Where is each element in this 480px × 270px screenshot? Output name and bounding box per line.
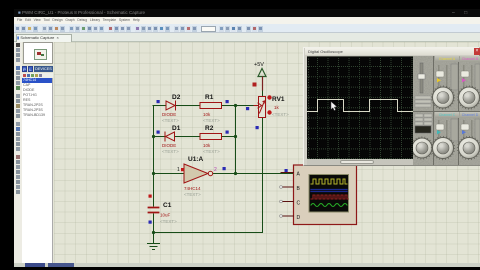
junction node input at inverter <box>152 172 155 175</box>
Channel C header <box>435 112 459 118</box>
pin state square C1 top <box>149 195 152 198</box>
svg-text:DIODE: DIODE <box>162 112 176 117</box>
oscilloscope mini screen <box>309 175 349 213</box>
mini trace A yellow <box>311 179 347 184</box>
knobs and sliders <box>413 56 480 165</box>
inverter output bubble <box>208 171 212 175</box>
scope screen <box>307 56 413 159</box>
mini trace C red <box>311 195 348 199</box>
svg-text:<TEXT>: <TEXT> <box>160 219 177 224</box>
knob channel C <box>432 137 455 160</box>
wire right bus vertical <box>235 106 237 174</box>
scope control panel <box>413 56 480 165</box>
pin state square R1 right <box>226 100 229 103</box>
svg-text:<TEXT>: <TEXT> <box>272 112 289 117</box>
trigger LCD <box>415 126 431 133</box>
svg-text:10uF: 10uF <box>160 213 171 218</box>
oscilloscope component body <box>294 165 357 225</box>
left icon strip <box>14 42 22 263</box>
potentiometer RV1 body <box>259 97 266 118</box>
svg-text:R1: R1 <box>205 94 214 101</box>
wire RV1 bottom leg <box>153 118 263 233</box>
channel D sliders <box>461 119 480 141</box>
capacitor C1 <box>149 208 159 213</box>
power +5V symbol <box>258 69 266 77</box>
pin state square RV1 wiper wire <box>246 107 249 110</box>
mini icon row <box>22 73 53 78</box>
window buttons <box>452 11 478 16</box>
Channel A header <box>435 56 459 62</box>
Channel B header <box>460 56 480 62</box>
pin state square RV1 bottom <box>256 126 259 129</box>
junction node R2 <box>234 135 237 138</box>
Channel D header <box>460 112 480 118</box>
menu bar <box>14 17 480 24</box>
channel A sliders <box>436 64 458 90</box>
wire left bus lower <box>153 214 155 243</box>
scope close button <box>474 48 480 55</box>
svg-text:C: C <box>297 201 301 207</box>
svg-text:1: 1 <box>177 167 180 173</box>
knob channel A <box>432 86 455 109</box>
scope trace <box>307 56 413 159</box>
knob horizontal <box>411 137 433 159</box>
tab bar <box>14 33 480 42</box>
panel column dividers <box>433 56 434 165</box>
oscilloscope pin terminals <box>280 186 283 189</box>
device list <box>22 78 53 263</box>
svg-text:74HC14: 74HC14 <box>184 186 201 191</box>
wire D2 row <box>153 105 200 107</box>
panel noise <box>413 56 480 165</box>
RV1 wiper arrow <box>254 103 262 108</box>
junction node R1/RV1 <box>234 104 237 107</box>
scope bottom strip <box>307 159 413 165</box>
pin state square U1 input <box>181 168 184 171</box>
svg-text:+5V: +5V <box>254 62 264 68</box>
svg-text:1k: 1k <box>274 105 280 110</box>
op-amp U1:A inverter <box>184 164 208 183</box>
col0 slider <box>415 63 431 107</box>
channel C sliders <box>436 119 458 141</box>
pin state square C1 bottom <box>149 221 152 224</box>
diode D2 <box>166 101 176 110</box>
title bar <box>14 9 480 17</box>
scope window title bar <box>305 48 480 55</box>
wire D1 row <box>153 136 200 138</box>
svg-text:D: D <box>297 215 301 221</box>
mouse cursor <box>331 102 337 111</box>
mini trace B blue <box>311 190 347 192</box>
pin state square RV1 top wire <box>253 83 257 87</box>
svg-text:<TEXT>: <TEXT> <box>184 192 201 197</box>
schematic canvas <box>54 42 480 263</box>
resistor R2 <box>200 134 222 140</box>
svg-text:<TEXT>: <TEXT> <box>203 149 220 154</box>
pin state square R2 right <box>226 131 229 134</box>
pin state square scope pin A <box>285 169 288 172</box>
junction node output <box>234 172 237 175</box>
wire R1 to right bus and RV1 wiper <box>222 105 255 107</box>
svg-text:2: 2 <box>214 167 217 173</box>
svg-text:C1: C1 <box>163 202 172 209</box>
resistor R1 <box>200 103 222 109</box>
svg-text:10k: 10k <box>203 143 211 148</box>
wire inverter input <box>153 173 184 175</box>
toolbar <box>14 24 480 33</box>
svg-text:U1:A: U1:A <box>188 156 203 163</box>
junction node input bus at D1 <box>152 135 155 138</box>
wire R2 to right bus <box>222 136 236 138</box>
knob channel D <box>458 137 480 160</box>
junction node ground rail <box>152 231 155 234</box>
wire RV1 top to +5V <box>262 78 264 96</box>
svg-text:<TEXT>: <TEXT> <box>203 118 220 123</box>
svg-text:<TEXT>: <TEXT> <box>162 118 179 123</box>
channel B sliders <box>461 64 480 90</box>
status bar sliver <box>14 263 480 267</box>
pin state square D1 cathode <box>157 131 160 134</box>
svg-text:RV1: RV1 <box>272 96 285 103</box>
svg-text:<TEXT>: <TEXT> <box>162 149 179 154</box>
pin state square U1 output <box>223 167 226 170</box>
wire left bus vertical <box>153 106 155 207</box>
svg-text:D2: D2 <box>172 94 181 101</box>
svg-text:D1: D1 <box>172 125 181 132</box>
svg-text:DIODE: DIODE <box>162 143 176 148</box>
P L buttons + DEVICES header <box>22 66 27 72</box>
svg-text:R2: R2 <box>205 125 214 132</box>
oscilloscope pins <box>281 173 294 217</box>
knob channel B <box>458 86 480 109</box>
sidebar preview window <box>23 42 53 64</box>
oscilloscope window <box>303 47 480 166</box>
ground <box>148 244 160 250</box>
svg-text:10k: 10k <box>203 112 211 117</box>
wire inverter output to scope pin A <box>214 173 294 175</box>
RV1 pin state dots <box>267 95 271 99</box>
mini trace D green <box>311 204 347 207</box>
col0 bottom buttons <box>415 114 432 133</box>
pin state square D2 anode <box>157 100 160 103</box>
diode D1 <box>165 132 175 141</box>
